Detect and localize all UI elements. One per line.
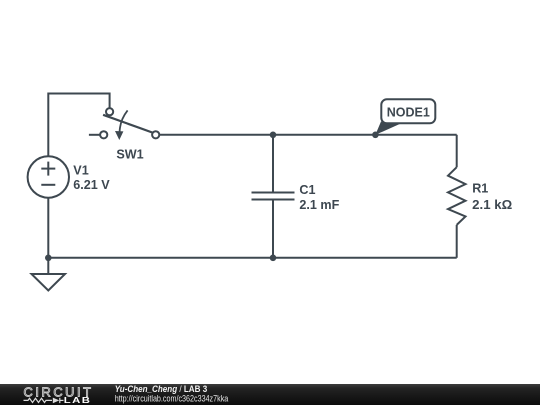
- svg-text:2.1 mF: 2.1 mF: [299, 198, 339, 212]
- wire V1 top lead to top rail: [48, 94, 109, 157]
- junction top-left of capacitor: [270, 132, 277, 139]
- junction capacitor bottom: [270, 254, 277, 261]
- footer bar: [0, 384, 540, 405]
- junction ground: [45, 254, 52, 261]
- CircuitLab logo resistor-diode glyph: [24, 398, 64, 403]
- switch top terminal: [106, 108, 113, 115]
- svg-text:2.1 kΩ: 2.1 kΩ: [472, 198, 512, 212]
- wire right rail bottom: [456, 225, 458, 258]
- wire right rail top: [456, 135, 458, 167]
- switch left terminal: [100, 131, 107, 138]
- svg-text:V1: V1: [73, 163, 88, 177]
- svg-text:LAB: LAB: [64, 397, 92, 405]
- svg-text:6.21 V: 6.21 V: [73, 178, 110, 192]
- capacitor C1: [252, 193, 295, 200]
- wire V1 bottom lead: [47, 198, 49, 258]
- wire capacitor top lead: [272, 135, 274, 193]
- resistor R1: [448, 167, 466, 225]
- svg-text:http://circuitlab.com/c362c334: http://circuitlab.com/c362c334z7kka: [115, 394, 229, 404]
- svg-text:R1: R1: [472, 182, 488, 196]
- switch actuator arrowhead: [115, 131, 123, 140]
- svg-text:C1: C1: [299, 183, 315, 197]
- wire bottom rail: [48, 257, 456, 259]
- node NODE1 flag: [375, 99, 435, 135]
- switch right terminal: [152, 131, 159, 138]
- voltage source V1: [28, 156, 69, 197]
- switch SW1: [89, 108, 159, 140]
- wire ground stub: [47, 258, 49, 274]
- svg-text:Yu-Chen_Cheng / LAB 3: Yu-Chen_Cheng / LAB 3: [115, 384, 208, 394]
- junction NODE1: [372, 132, 379, 139]
- wire capacitor bottom lead: [272, 200, 274, 258]
- wire switch to right corner: [159, 134, 457, 136]
- switch left throw stub: [89, 134, 100, 136]
- ground: [32, 274, 66, 291]
- switch actuator arc: [120, 110, 128, 134]
- svg-text:SW1: SW1: [116, 147, 143, 161]
- svg-text:NODE1: NODE1: [387, 105, 430, 119]
- switch blade: [103, 115, 153, 133]
